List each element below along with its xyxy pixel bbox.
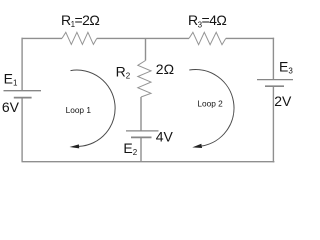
svg-text:E3: E3 — [279, 58, 293, 75]
svg-text:2Ω: 2Ω — [156, 61, 174, 77]
wire left — [21, 38, 23, 162]
svg-text:4V: 4V — [156, 128, 174, 144]
svg-text:E1: E1 — [4, 70, 18, 87]
resistor R3 — [189, 32, 226, 44]
svg-text:Loop 2: Loop 2 — [197, 98, 223, 108]
svg-text:R2: R2 — [116, 63, 131, 80]
battery E1 — [4, 91, 42, 98]
resistor R2 — [138, 61, 151, 98]
resistor R1 — [62, 32, 97, 44]
svg-text:E2: E2 — [123, 140, 137, 157]
wire top — [22, 37, 275, 39]
battery E3 — [257, 80, 293, 87]
svg-text:R3=4Ω: R3=4Ω — [188, 12, 226, 29]
svg-text:2V: 2V — [274, 93, 292, 109]
svg-text:R1=2Ω: R1=2Ω — [61, 12, 99, 29]
loop 1 arrow arc — [71, 70, 116, 146]
loop 2 arrow arc — [189, 69, 234, 146]
loop 1 arrowhead — [70, 144, 80, 148]
wire right — [272, 38, 274, 163]
svg-text:6V: 6V — [2, 99, 20, 115]
wire bottom — [22, 161, 275, 163]
battery E2 — [126, 131, 159, 138]
loop 2 arrowhead — [192, 144, 202, 148]
svg-text:Loop 1: Loop 1 — [66, 105, 92, 115]
wire middle branch — [141, 38, 146, 161]
